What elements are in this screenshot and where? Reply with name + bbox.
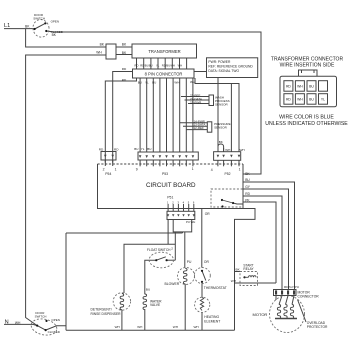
svg-text:WH: WH — [173, 325, 178, 329]
svg-text:4: 4 — [211, 168, 213, 172]
svg-text:BU: BU — [245, 178, 250, 182]
svg-text:WH: WH — [96, 51, 102, 55]
svg-text:RD: RD — [286, 85, 291, 89]
svg-text:L1: L1 — [4, 23, 10, 29]
svg-text:8 PIN CONNECTOR: 8 PIN CONNECTOR — [145, 72, 183, 77]
svg-text:TRANSFORMER: TRANSFORMER — [148, 49, 180, 54]
svg-text:YL: YL — [145, 80, 149, 84]
svg-text:GY: GY — [245, 185, 251, 189]
svg-text:WH: WH — [231, 279, 236, 283]
svg-text:RD: RD — [122, 78, 127, 82]
svg-text:WH: WH — [194, 325, 199, 329]
svg-text:WH: WH — [297, 98, 303, 102]
svg-text:DATA: SIGNAL TWO: DATA: SIGNAL TWO — [208, 69, 239, 73]
svg-text:VALVE: VALVE — [150, 303, 161, 307]
svg-text:P54: P54 — [105, 172, 111, 176]
svg-text:OR: OR — [204, 260, 210, 264]
svg-text:CONNECTOR: CONNECTOR — [298, 295, 320, 299]
svg-text:WH: WH — [137, 325, 142, 329]
svg-text:REF: REFERENCE GROUND: REF: REFERENCE GROUND — [208, 65, 253, 69]
svg-text:DETERGENT/: DETERGENT/ — [91, 307, 112, 311]
svg-text:21-PWR: 21-PWR — [190, 100, 202, 104]
svg-text:2: 2 — [103, 168, 105, 172]
svg-text:RD: RD — [135, 64, 139, 68]
svg-text:P53: P53 — [162, 172, 168, 176]
svg-text:BU: BU — [152, 80, 156, 84]
svg-text:PROTECTOR: PROTECTOR — [307, 325, 328, 329]
svg-text:HEATING: HEATING — [204, 315, 219, 319]
svg-text:WH: WH — [190, 80, 195, 84]
svg-text:PU WH: PU WH — [186, 220, 195, 224]
svg-text:WH: WH — [115, 325, 120, 329]
svg-text:N: N — [5, 319, 9, 325]
svg-text:RINSE DISPENSER: RINSE DISPENSER — [91, 312, 122, 316]
svg-text:1: 1 — [192, 167, 194, 171]
svg-text:WH: WH — [178, 64, 183, 68]
svg-text:BU: BU — [147, 147, 151, 151]
svg-text:YL: YL — [321, 98, 325, 102]
svg-text:12-REF: 12-REF — [194, 126, 205, 130]
svg-text:MOTOR: MOTOR — [253, 312, 268, 317]
svg-text:OPEN: OPEN — [51, 19, 60, 23]
svg-text:WH: WH — [297, 85, 303, 89]
svg-text:RD: RD — [114, 148, 119, 152]
svg-text:ELEMENT: ELEMENT — [204, 319, 220, 323]
svg-text:WIRE INSERTION SIDE: WIRE INSERTION SIDE — [280, 62, 335, 68]
svg-text:WH: WH — [240, 148, 245, 152]
svg-text:PU: PU — [187, 260, 192, 264]
svg-text:WH: WH — [174, 80, 179, 84]
svg-text:CIRCUIT BOARD: CIRCUIT BOARD — [146, 182, 196, 189]
svg-text:BLOWER: BLOWER — [165, 282, 180, 286]
svg-text:SENSOR: SENSOR — [214, 126, 228, 130]
svg-text:FLOAT SWITCH: FLOAT SWITCH — [147, 248, 171, 252]
svg-text:RD: RD — [286, 98, 291, 102]
svg-text:THERMOSTAT: THERMOSTAT — [204, 286, 227, 290]
svg-text:WH: WH — [170, 64, 175, 68]
svg-text:RD: RD — [99, 148, 104, 152]
svg-text:YL: YL — [156, 64, 160, 68]
svg-text:BU: BU — [146, 288, 150, 292]
svg-text:P51: P51 — [167, 195, 173, 199]
svg-text:SENSOR: SENSOR — [215, 102, 229, 106]
svg-text:RD/GY/PU: RD/GY/PU — [284, 285, 299, 289]
svg-text:RD/BU: RD/BU — [162, 64, 170, 68]
svg-text:OPEN: OPEN — [51, 318, 60, 322]
svg-text:WH: WH — [225, 148, 230, 152]
svg-text:1: 1 — [239, 168, 241, 172]
svg-text:RD: RD — [245, 192, 250, 196]
svg-text:PWR: POWER: PWR: POWER — [208, 60, 231, 64]
svg-text:1: 1 — [115, 168, 117, 172]
svg-text:SWITCH: SWITCH — [33, 16, 45, 20]
svg-text:BU: BU — [149, 64, 153, 68]
svg-text:SWITCH: SWITCH — [35, 314, 47, 318]
svg-text:BU: BU — [309, 85, 314, 89]
svg-text:WIRE COLOR IS BLUE: WIRE COLOR IS BLUE — [279, 115, 334, 121]
svg-text:RELAY: RELAY — [243, 267, 254, 271]
svg-text:BU: BU — [138, 80, 142, 84]
svg-text:WH: WH — [15, 321, 21, 325]
svg-text:RD: RD — [122, 67, 127, 71]
svg-text:OR: OR — [205, 212, 211, 216]
svg-text:RD/BU: RD/BU — [140, 64, 148, 68]
svg-text:9: 9 — [136, 168, 138, 172]
svg-text:BU: BU — [134, 147, 138, 151]
svg-text:CLOSED: CLOSED — [48, 330, 61, 334]
svg-text:BU: BU — [309, 98, 314, 102]
svg-text:UNLESS INDICATED OTHERWISE: UNLESS INDICATED OTHERWISE — [265, 121, 348, 127]
svg-text:YL: YL — [141, 147, 145, 151]
svg-text:P52: P52 — [225, 172, 231, 176]
